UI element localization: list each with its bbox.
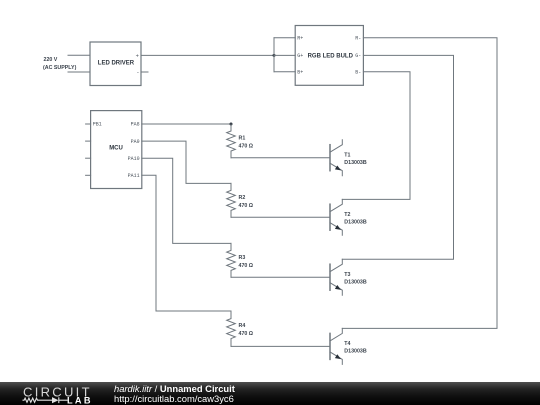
svg-text:PA8: PA8 (131, 122, 140, 128)
svg-text:T3: T3 (344, 272, 350, 278)
RGB LED bulb module (295, 26, 363, 86)
svg-text:T1: T1 (344, 153, 350, 159)
wire R1 to T1 base (231, 157, 330, 159)
svg-text:470 Ω: 470 Ω (239, 144, 254, 150)
svg-text:470 Ω: 470 Ω (239, 331, 254, 337)
svg-text:PA11: PA11 (128, 173, 140, 179)
svg-text:PB1: PB1 (93, 122, 102, 128)
resistor R4 (227, 311, 254, 346)
net label 220V AC SUPPLY (43, 57, 77, 71)
wire bulb + bracket vertical (273, 38, 275, 72)
svg-text:D13003B: D13003B (344, 349, 367, 355)
svg-text:R3: R3 (239, 255, 246, 261)
LED driver module (90, 42, 141, 86)
svg-text:470 Ω: 470 Ω (239, 263, 254, 269)
wire AC input top (68, 54, 90, 56)
svg-text:LED DRIVER: LED DRIVER (98, 60, 135, 66)
transistor T3 (330, 259, 367, 295)
svg-text:PA9: PA9 (131, 139, 140, 145)
resistor R2 (227, 183, 254, 217)
wire R2 to T2 base (231, 216, 330, 218)
svg-text:R-: R- (355, 36, 361, 42)
wire PA10 to R3 (142, 158, 231, 243)
wire PA11 to R4 (142, 175, 231, 311)
wire driver + output to bulb (141, 54, 274, 56)
wire to B+ (274, 71, 295, 73)
wire AC input bottom (68, 71, 90, 73)
svg-text:R+: R+ (297, 36, 303, 42)
transistor T2 (330, 199, 367, 235)
pin stub (86, 174, 91, 176)
junction node at R1 top (230, 123, 233, 126)
svg-text:PA10: PA10 (128, 156, 140, 162)
wire G- to T3 collector (342, 55, 453, 259)
wire PA9 to R2 (142, 141, 231, 183)
svg-text:D13003B: D13003B (344, 280, 367, 286)
transistor T1 (330, 140, 367, 176)
svg-text:B+: B+ (297, 70, 303, 76)
svg-text:D13003B: D13003B (344, 220, 367, 226)
svg-text:R2: R2 (239, 195, 246, 201)
svg-text:(AC SUPPLY): (AC SUPPLY) (43, 65, 77, 71)
wire to G+ (274, 54, 295, 56)
resistor R3 (227, 243, 254, 277)
svg-text:+: + (136, 53, 139, 60)
wire PA8 to R1 (142, 123, 231, 125)
svg-text:D13003B: D13003B (344, 160, 367, 166)
wire R3 to T3 base (231, 276, 330, 278)
svg-text:G+: G+ (297, 53, 303, 59)
svg-text:220 V: 220 V (44, 57, 58, 63)
svg-text:T4: T4 (344, 341, 350, 347)
MCU module (86, 111, 142, 189)
svg-text:MCU: MCU (109, 146, 123, 152)
footer bar (0, 382, 540, 405)
wire driver - stub (141, 71, 148, 73)
svg-text:-: - (136, 69, 139, 76)
svg-text:470 Ω: 470 Ω (239, 203, 254, 209)
junction node at driver output (273, 54, 276, 57)
transistor T4 (330, 328, 367, 364)
pin stub PB1 (86, 123, 91, 125)
svg-text:T2: T2 (344, 212, 350, 218)
svg-text:R4: R4 (239, 323, 246, 329)
wire B- to T2 collector (342, 72, 410, 200)
svg-text:B-: B- (355, 70, 361, 76)
resistor R1 (227, 124, 254, 158)
svg-text:G-: G- (355, 53, 361, 59)
wire R- to T4 collector (342, 38, 497, 329)
pin stub (86, 157, 91, 159)
CircuitLab logo (21, 382, 101, 405)
svg-text:RGB LED BULD: RGB LED BULD (308, 54, 354, 60)
svg-text:R1: R1 (239, 136, 246, 142)
wire to R+ (274, 37, 295, 39)
wire R4 to T4 base (231, 345, 330, 347)
pin stub (86, 140, 91, 142)
svg-text:LAB: LAB (67, 396, 93, 405)
